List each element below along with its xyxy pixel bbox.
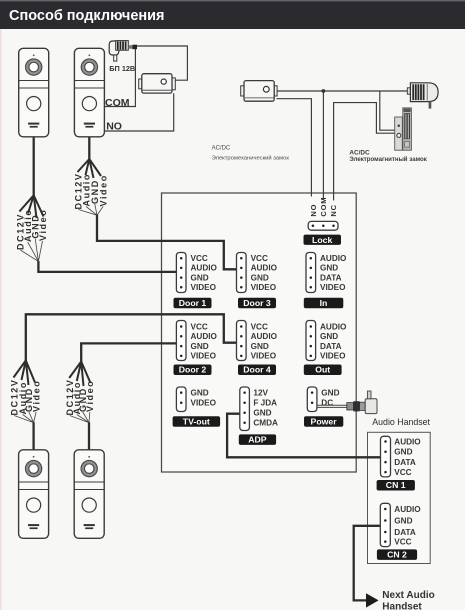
badge Lock xyxy=(304,235,342,245)
electromechanical lock L1 xyxy=(139,74,176,93)
svg-text:Door 4: Door 4 xyxy=(243,365,271,375)
badge CN 1 xyxy=(377,480,415,491)
scan edge artifact xyxy=(0,29,2,610)
svg-text:Video: Video xyxy=(31,380,41,412)
badge Door 1 xyxy=(174,298,212,309)
badge TV-out xyxy=(173,416,221,427)
svg-text:GND: GND xyxy=(320,264,338,273)
svg-text:Audio Handset: Audio Handset xyxy=(372,417,430,427)
svg-text:VCC: VCC xyxy=(394,537,411,546)
connector Out xyxy=(306,321,316,361)
wire NC net xyxy=(334,103,395,201)
svg-text:AUDIO: AUDIO xyxy=(394,437,421,446)
electromagnetic lock xyxy=(395,108,412,150)
connector In xyxy=(306,253,316,293)
svg-text:Next Audio: Next Audio xyxy=(382,590,434,601)
svg-text:CMDA: CMDA xyxy=(253,419,278,428)
svg-text:CN 1: CN 1 xyxy=(386,480,406,490)
svg-text:GND: GND xyxy=(394,516,412,525)
wire lock2 to plug2 xyxy=(277,90,411,92)
wire P3 stub xyxy=(32,422,34,450)
svg-text:DATA: DATA xyxy=(394,458,416,467)
svg-text:AUDIO: AUDIO xyxy=(320,322,347,331)
wire plug1 to lock1 xyxy=(137,46,188,80)
svg-text:DATA: DATA xyxy=(320,342,342,351)
wire lock2 NO branch xyxy=(277,99,312,197)
svg-text:NC: NC xyxy=(329,204,338,216)
wire maglock power branch xyxy=(380,91,395,130)
arrowhead next handset xyxy=(366,593,379,607)
svg-text:AC/DC: AC/DC xyxy=(212,146,231,152)
svg-text:Lock: Lock xyxy=(312,235,332,245)
connector Door 4 xyxy=(237,321,247,361)
svg-text:Power: Power xyxy=(311,416,338,426)
svg-text:Handset: Handset xyxy=(382,602,422,610)
electromechanical lock L2 xyxy=(241,81,277,102)
wire P2 converge xyxy=(78,204,103,215)
badge Door 2 xyxy=(174,365,212,376)
badge Door 3 xyxy=(238,298,276,309)
connector Door 3 xyxy=(237,253,247,293)
connector Door 2 xyxy=(176,321,186,361)
svg-text:VIDEO: VIDEO xyxy=(191,399,217,408)
svg-text:VCC: VCC xyxy=(394,468,411,477)
badge Door 4 xyxy=(238,365,276,376)
svg-text:GND: GND xyxy=(191,388,209,397)
badge ADP xyxy=(239,434,276,445)
svg-text:AUDIO: AUDIO xyxy=(251,264,278,273)
svg-text:Door 3: Door 3 xyxy=(243,298,271,308)
audio handset box xyxy=(368,432,431,563)
wire P2 stub xyxy=(88,137,90,160)
svg-text:F JDA: F JDA xyxy=(253,399,277,408)
header bar xyxy=(0,0,465,29)
connector TV-out xyxy=(176,387,186,412)
wire P4 stub xyxy=(88,422,90,450)
wire Door4 xyxy=(26,314,237,361)
svg-text:Способ подключения: Способ подключения xyxy=(9,8,165,24)
connector CN2 xyxy=(380,503,390,546)
wire P3 fan xyxy=(14,360,36,385)
svg-text:AUDIO: AUDIO xyxy=(320,254,347,263)
power supply BP12V body xyxy=(109,41,137,62)
wire P1 stub xyxy=(33,137,35,197)
connector Lock xyxy=(308,221,338,230)
svg-text:AUDIO: AUDIO xyxy=(394,505,421,514)
connector Door 1 xyxy=(176,253,186,293)
wire COM from P2 xyxy=(104,49,135,107)
svg-text:GND: GND xyxy=(191,273,209,282)
wire ADP to CN1 xyxy=(227,414,380,458)
door panel P4 xyxy=(74,450,104,539)
door panel P3 xyxy=(19,450,49,539)
badge In xyxy=(304,298,344,309)
svg-text:GND: GND xyxy=(253,409,271,418)
svg-text:VCC: VCC xyxy=(191,322,208,331)
svg-text:12V: 12V xyxy=(253,388,268,397)
svg-text:GND: GND xyxy=(321,388,339,397)
wire P2 fan xyxy=(78,159,102,178)
wire CN2 out xyxy=(354,526,381,601)
svg-text:COM: COM xyxy=(105,97,130,109)
connector ADP xyxy=(240,387,250,431)
AC adapter plug top right xyxy=(407,83,438,109)
svg-text:VCC: VCC xyxy=(251,322,268,331)
svg-text:Электромеханический замок: Электромеханический замок xyxy=(212,155,290,162)
svg-text:GND: GND xyxy=(191,342,209,351)
door panel P2 xyxy=(74,48,104,137)
svg-text:DC: DC xyxy=(321,399,333,408)
svg-text:DATA: DATA xyxy=(394,528,416,537)
connector Power xyxy=(307,387,317,412)
svg-text:AUDIO: AUDIO xyxy=(191,264,218,273)
svg-text:In: In xyxy=(320,298,328,308)
svg-text:GND: GND xyxy=(320,332,338,341)
wire P3 converge xyxy=(14,412,36,423)
svg-text:COM: COM xyxy=(319,197,328,217)
wire NO from P2 xyxy=(104,93,174,131)
svg-text:VCC: VCC xyxy=(191,254,208,263)
svg-text:AUDIO: AUDIO xyxy=(251,332,278,341)
svg-text:DATA: DATA xyxy=(320,273,342,282)
wire Door3 xyxy=(97,215,237,269)
wire Door1 xyxy=(38,261,176,272)
wire P4 fan xyxy=(69,362,90,387)
svg-text:VCC: VCC xyxy=(251,254,268,263)
svg-text:Door 1: Door 1 xyxy=(179,298,207,308)
wire P1 converge xyxy=(20,239,42,262)
svg-text:VIDEO: VIDEO xyxy=(251,352,277,361)
svg-text:NO: NO xyxy=(309,204,318,217)
svg-text:Video: Video xyxy=(85,380,95,412)
svg-text:NO: NO xyxy=(106,121,122,133)
svg-text:VIDEO: VIDEO xyxy=(251,283,277,292)
door panel P1 xyxy=(19,48,49,137)
svg-text:Door 2: Door 2 xyxy=(179,365,207,375)
badge Out xyxy=(304,365,342,376)
wire COM vertical xyxy=(322,91,324,200)
svg-text:GND: GND xyxy=(251,342,269,351)
svg-text:Электромагнитный замок: Электромагнитный замок xyxy=(349,156,427,163)
svg-text:VIDEO: VIDEO xyxy=(320,283,346,292)
svg-text:GND: GND xyxy=(394,448,412,457)
svg-text:Video: Video xyxy=(38,209,48,241)
svg-text:CN 2: CN 2 xyxy=(387,550,407,560)
main unit box xyxy=(162,193,357,472)
svg-text:AUDIO: AUDIO xyxy=(191,332,218,341)
svg-text:TV-out: TV-out xyxy=(183,416,210,426)
badge Power xyxy=(304,416,343,427)
svg-text:VIDEO: VIDEO xyxy=(191,283,217,292)
svg-text:ADP: ADP xyxy=(248,435,267,445)
wire P1 fan xyxy=(19,195,43,218)
svg-text:VIDEO: VIDEO xyxy=(320,352,346,361)
svg-text:Out: Out xyxy=(315,365,330,375)
wire P4 converge xyxy=(70,412,90,423)
svg-text:GND: GND xyxy=(251,273,269,282)
DC power plug xyxy=(317,391,377,414)
svg-text:VIDEO: VIDEO xyxy=(191,352,217,361)
wire Door2 xyxy=(81,343,176,362)
connector CN1 xyxy=(381,436,391,477)
svg-text:БП 12В: БП 12В xyxy=(109,64,135,73)
svg-text:Video: Video xyxy=(98,174,108,206)
badge CN 2 xyxy=(377,549,417,560)
junction node xyxy=(322,89,326,93)
